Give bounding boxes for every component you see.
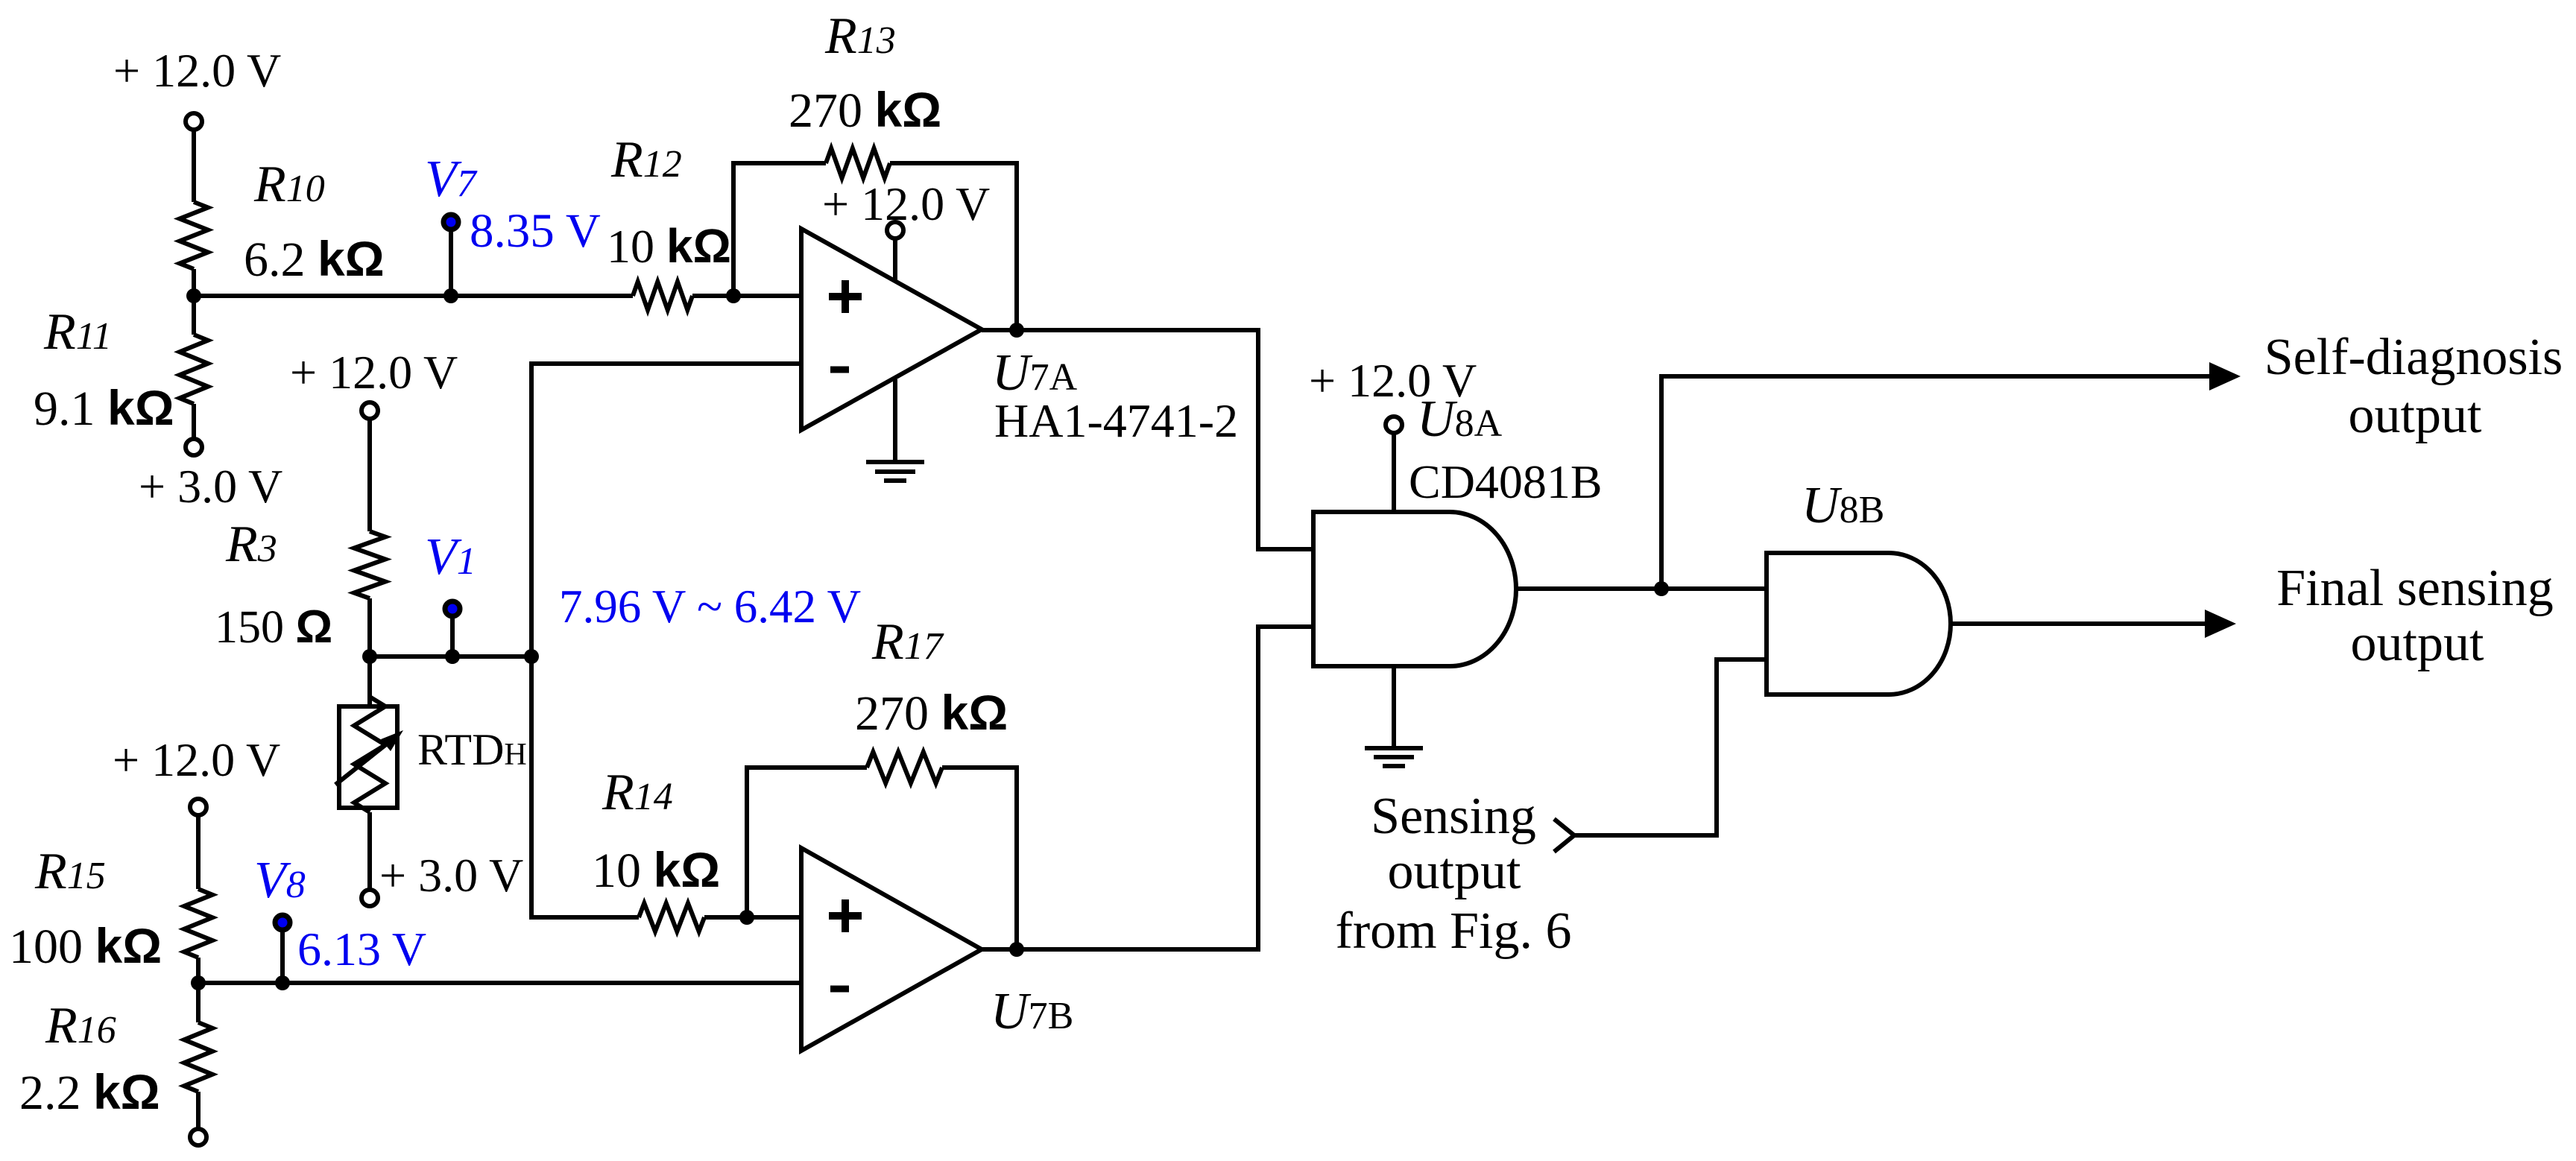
svg-text:output: output (2351, 615, 2484, 672)
wire R10 to R11 through node (192, 269, 196, 335)
RTD H box (339, 706, 397, 808)
power terminal +12.0V top-left (186, 113, 202, 130)
svg-text:output: output (2349, 387, 2482, 444)
wire feedback left and top U7A (733, 163, 826, 296)
ground U7A bars (866, 460, 924, 464)
junction U7A output feedback tap (1009, 323, 1024, 338)
svg-text:+ 3.0 V: + 3.0 V (379, 849, 523, 902)
wire R16 to bottom terminal (196, 1092, 201, 1128)
ground U8A stem (1392, 666, 1396, 748)
svg-text:7.96 V ~ 6.42 V: 7.96 V ~ 6.42 V (559, 580, 861, 633)
resistor R3 (354, 531, 385, 598)
wire R15 to R16 through node V8 (196, 958, 201, 1022)
wire U7A minus input from node V1 (531, 364, 801, 657)
wire terminal to R3 (367, 419, 372, 531)
AND gate U8A body (1313, 512, 1516, 666)
svg-text:10 kΩ: 10 kΩ (592, 842, 720, 898)
op-amp U7A supply terminal circle (887, 222, 903, 238)
wire node A horizontal to R12 (194, 294, 633, 298)
op-amp U7A triangle (801, 229, 982, 430)
power terminal +12.0V above R15 (190, 799, 206, 815)
svg-text:R10: R10 (253, 156, 325, 213)
wire U7A supply (893, 238, 897, 282)
wire node V1 down to R14 (531, 657, 639, 917)
wire R11 to +3.0V terminal (192, 404, 196, 439)
arrowhead final sensing output (2205, 610, 2236, 638)
svg-text:6.2 kΩ: 6.2 kΩ (244, 231, 385, 287)
svg-text:Self-diagnosis: Self-diagnosis (2264, 329, 2563, 386)
op-amp U7A minus sign (830, 367, 849, 373)
svg-text:HA1-4741-2: HA1-4741-2 (994, 394, 1238, 447)
svg-text:RTDH: RTDH (417, 725, 527, 774)
wire R14 to U7B plus input (704, 915, 801, 920)
svg-text:+ 12.0 V: + 12.0 V (290, 346, 458, 399)
svg-text:270 kΩ: 270 kΩ (855, 685, 1008, 741)
svg-text:V7: V7 (425, 151, 478, 208)
wire U7B output to U8A input 2 (982, 627, 1313, 949)
junction node V1 at R3 (362, 649, 377, 664)
svg-text:R11: R11 (43, 303, 112, 361)
wire V1 probe stub (450, 614, 455, 657)
svg-text:output: output (1388, 843, 1521, 900)
wire RTD to +3.0V terminal (367, 812, 372, 889)
wire V8 probe stub (280, 928, 285, 983)
svg-text:R17: R17 (871, 613, 944, 671)
power terminal +12.0V above R3 (362, 402, 378, 419)
junction V8 probe stub (275, 975, 290, 990)
wire U8B output (1951, 621, 2206, 626)
wire R12 to U7A plus input (692, 294, 801, 298)
wire feedback left and top U7B (747, 768, 867, 917)
resistor R14 (639, 903, 704, 931)
probe dot V1 (445, 601, 460, 616)
junction U7B plus input feedback tap (739, 910, 754, 925)
ground U8A bars (1365, 746, 1423, 750)
svg-text:V8: V8 (254, 852, 306, 909)
resistor R10 (180, 202, 208, 269)
sensing input chevron (1554, 819, 1574, 852)
svg-text:150 Ω: 150 Ω (215, 601, 332, 653)
svg-text:9.1 kΩ: 9.1 kΩ (34, 380, 174, 436)
terminal bottom of R16 (190, 1129, 206, 1145)
arrowhead self-diagnosis output (2209, 362, 2241, 390)
svg-text:U7A: U7A (992, 344, 1078, 402)
svg-text:R15: R15 (34, 843, 106, 900)
resistor R16 (184, 1022, 212, 1092)
wire U8B input 2 (1574, 659, 1767, 835)
junction node A at R10 R11 (186, 288, 201, 303)
svg-text:10 kΩ: 10 kΩ (607, 219, 731, 273)
svg-text:CD4081B: CD4081B (1409, 455, 1603, 508)
RTD H diagonal arrow line (335, 738, 394, 785)
wire terminal to R15 (196, 815, 201, 889)
svg-text:R13: R13 (824, 7, 896, 65)
junction node V1 right (524, 649, 539, 664)
op-amp U7B plus sign (829, 912, 862, 920)
svg-text:6.13 V: 6.13 V (297, 923, 426, 975)
wire U7A output to U8A input 1 (982, 330, 1313, 549)
svg-text:Sensing: Sensing (1371, 788, 1536, 845)
svg-text:U7B: U7B (991, 983, 1073, 1040)
wire V7 probe stub (449, 227, 453, 296)
junction node V8 at R15 R16 (191, 975, 206, 990)
svg-text:+ 3.0 V: + 3.0 V (139, 460, 282, 513)
svg-text:R14: R14 (602, 764, 673, 821)
op-amp U7A plus sign (829, 293, 862, 300)
RTD H zigzag (354, 697, 385, 812)
power terminal +3.0V below RTD (362, 890, 378, 906)
svg-text:V1: V1 (425, 528, 476, 586)
svg-text:100 kΩ: 100 kΩ (9, 918, 162, 974)
op-amp U7B minus sign (830, 986, 849, 993)
resistor R13 (826, 148, 890, 178)
wire R3 to node V1 (367, 598, 372, 706)
junction V7 stub on node A wire (443, 288, 458, 303)
wire self-diagnosis output from junction (1661, 376, 2211, 589)
junction U7B output feedback tap (1009, 942, 1024, 957)
AND gate U8B body (1767, 553, 1951, 695)
ground U7A stem (893, 379, 897, 462)
junction U7A plus input feedback tap (726, 288, 741, 303)
svg-text:2.2 kΩ: 2.2 kΩ (19, 1064, 160, 1120)
svg-text:8.35 V: 8.35 V (470, 204, 601, 258)
junction node V1 probe stub (445, 649, 460, 664)
svg-text:270 kΩ: 270 kΩ (789, 82, 941, 138)
resistor R15 (184, 889, 212, 958)
wire U8A supply (1392, 433, 1396, 512)
svg-text:R12: R12 (610, 131, 682, 189)
svg-text:+ 12.0 V: + 12.0 V (113, 44, 281, 97)
svg-text:R3: R3 (225, 516, 277, 573)
AND gate U8A supply terminal (1386, 417, 1402, 433)
wire top terminal to R10 (192, 130, 196, 202)
probe dot V8 (275, 915, 290, 930)
resistor R17 (867, 752, 942, 783)
junction U8A output node (1654, 581, 1669, 596)
svg-text:from Fig. 6: from Fig. 6 (1336, 902, 1572, 960)
wire U8A output to U8B input 1 (1516, 586, 1767, 591)
svg-text:Final sensing: Final sensing (2276, 560, 2553, 617)
svg-text:+ 12.0 V: + 12.0 V (113, 733, 280, 786)
wire node V1 horizontal (370, 654, 531, 659)
op-amp U7B triangle (801, 848, 982, 1051)
svg-text:+ 12.0 V: + 12.0 V (822, 177, 990, 230)
wire feedback right segment U7A (890, 163, 1017, 330)
power terminal +3.0V left (186, 439, 202, 455)
wire feedback right segment U7B (942, 768, 1017, 949)
resistor R12 (633, 282, 692, 310)
RTD H diagonal arrowhead (381, 730, 403, 751)
svg-text:U8B: U8B (1802, 477, 1884, 534)
resistor R11 (180, 335, 208, 404)
wire node V8 to U7B minus input (198, 981, 801, 985)
svg-text:R16: R16 (45, 997, 116, 1054)
probe dot V7 (443, 215, 458, 230)
